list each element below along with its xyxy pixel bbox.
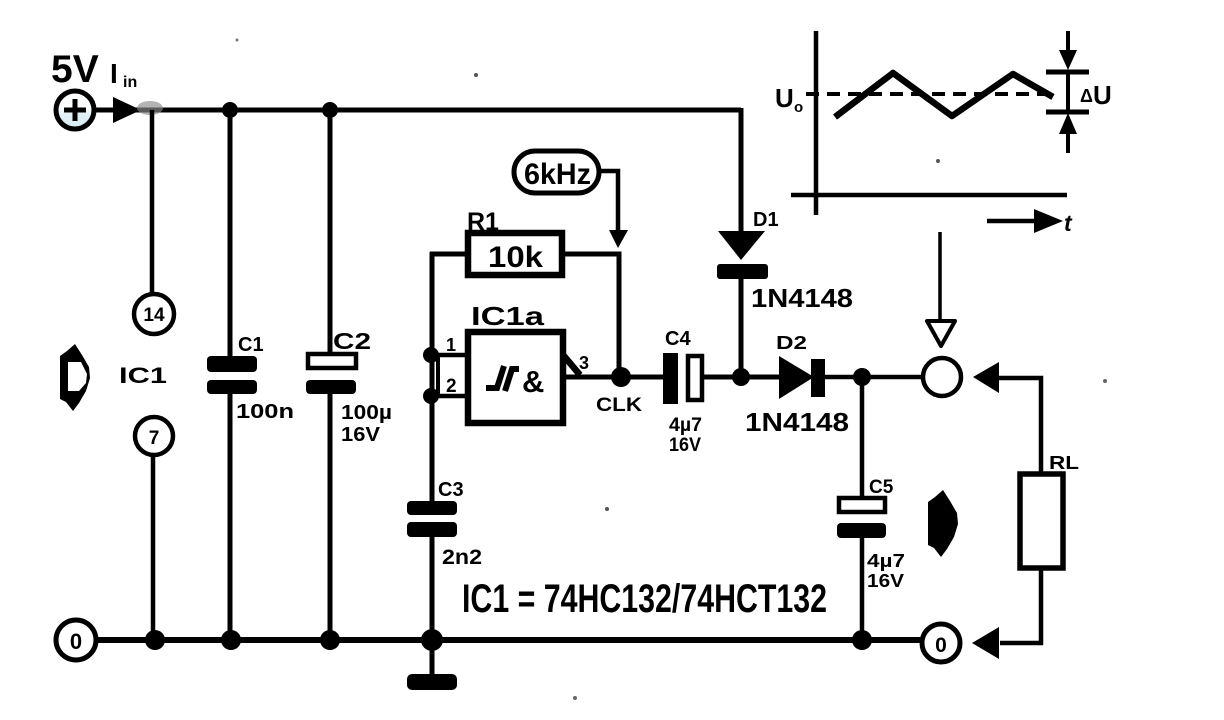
pin 2 wire: [438, 394, 468, 399]
resistor RL: [1020, 474, 1063, 568]
pin 3 diagonal: [564, 356, 580, 375]
dimension dU line top: [1066, 31, 1070, 52]
capacitor C4 (polarized): [663, 353, 702, 404]
wire RL bottom: [1000, 568, 1041, 643]
svg-text:1N4148: 1N4148: [745, 407, 849, 437]
svg-text:R1: R1: [467, 208, 499, 236]
probe wire from graph: [938, 232, 942, 320]
junction C2 top: [322, 102, 338, 118]
capacitor C1: [207, 110, 257, 640]
noise speck: [474, 73, 478, 77]
wire gate output: [563, 375, 663, 380]
diode D2: [779, 356, 825, 399]
junction C3 rail: [421, 629, 443, 651]
junction CLK node: [611, 367, 631, 387]
svg-text:&: &: [522, 364, 544, 399]
probe arrowhead open: [927, 321, 955, 346]
svg-text:in: in: [123, 74, 137, 91]
pin 14: [134, 294, 174, 334]
pin1-pin2 connector: [436, 355, 440, 396]
dimension mid line: [1066, 72, 1070, 110]
junction C5 node: [853, 368, 871, 386]
wire to pin 14: [150, 110, 155, 294]
svg-text:100n: 100n: [236, 401, 294, 423]
wire 5V rail: [94, 108, 741, 113]
svg-text:0: 0: [935, 634, 947, 657]
svg-text:7: 7: [149, 428, 160, 449]
svg-text:16V: 16V: [341, 424, 381, 446]
wire D2 to output node: [825, 375, 922, 380]
capacitor C3: [407, 501, 457, 640]
resistor R1: [468, 233, 562, 275]
ground stub: [430, 640, 435, 676]
gate IC1a: [468, 332, 563, 423]
dimension dU line bottom: [1066, 133, 1070, 153]
svg-text:2: 2: [446, 376, 457, 397]
svg-text:C4: C4: [665, 328, 691, 350]
output terminal circle: [923, 358, 961, 396]
t axis arrow line: [987, 219, 1040, 224]
capacitor C2 (polarized): [306, 110, 356, 640]
svg-text:6kHz: 6kHz: [524, 158, 591, 191]
arrowhead 6kHz down: [609, 230, 628, 248]
wire 6kHz pointer: [599, 171, 618, 231]
svg-text:I: I: [110, 58, 118, 89]
svg-text:14: 14: [143, 305, 165, 326]
junction C1 top: [222, 102, 238, 118]
voltage source V1 5V: [56, 91, 94, 129]
svg-text:3: 3: [579, 353, 589, 373]
graph y-axis: [814, 31, 819, 215]
wire C4 to D2: [704, 375, 780, 380]
junction C1 bottom: [221, 630, 241, 650]
wire RL top: [996, 378, 1041, 474]
junction D1 node: [732, 368, 750, 386]
svg-text:4µ7: 4µ7: [669, 415, 702, 436]
junction pin2: [423, 388, 439, 404]
svg-text:2n2: 2n2: [442, 546, 482, 569]
noise speck: [936, 159, 940, 163]
dimension arrow down: [1059, 50, 1077, 70]
svg-text:10k: 10k: [488, 241, 543, 274]
svg-text:100µ: 100µ: [341, 402, 392, 424]
svg-text:IC1: IC1: [119, 363, 167, 388]
label 6kHz oval: [514, 151, 599, 193]
svg-text:C1: C1: [238, 334, 264, 356]
ground symbol: [407, 674, 457, 690]
junction C2 bottom: [320, 630, 340, 650]
svg-text:D1: D1: [753, 209, 779, 231]
svg-text:0: 0: [70, 629, 82, 654]
noise speck: [1103, 379, 1107, 383]
output direction arrow: [928, 490, 958, 557]
svg-text:U: U: [775, 83, 794, 113]
svg-text:1N4148: 1N4148: [751, 283, 853, 313]
junction pin7/rail: [145, 630, 165, 650]
wire left vertical (R1 to C3): [430, 252, 435, 503]
svg-text:16V: 16V: [867, 571, 904, 591]
svg-text:o: o: [794, 99, 803, 116]
svg-text:D2: D2: [776, 333, 807, 353]
noise speck: [605, 507, 609, 511]
diode D1: [717, 108, 768, 377]
svg-text:t: t: [1064, 210, 1073, 236]
noise speck: [236, 39, 239, 42]
junction C5 bottom: [852, 630, 872, 650]
ground rail wire: [95, 637, 922, 643]
svg-text:C2: C2: [333, 328, 371, 354]
terminal 0 right: [922, 624, 960, 662]
wire R1 right: [562, 254, 619, 377]
dimension bar top: [1046, 70, 1089, 75]
t axis arrowhead: [1034, 209, 1063, 233]
arrowhead into 0 terminal: [972, 627, 999, 659]
svg-text:CLK: CLK: [596, 395, 642, 416]
svg-text:1: 1: [446, 335, 456, 355]
svg-text:C5: C5: [869, 477, 894, 498]
wire R1 left: [430, 252, 468, 257]
svg-text:U: U: [1093, 80, 1112, 110]
svg-text:IC1 = 74HC132/74HCT132: IC1 = 74HC132/74HCT132: [462, 577, 827, 621]
graph x-axis: [791, 193, 1067, 198]
dimension bar bottom: [1046, 110, 1089, 115]
junction pin1: [423, 347, 439, 363]
wire pin 7 to ground rail: [151, 455, 156, 640]
svg-text:16V: 16V: [669, 435, 701, 456]
dimension arrow up: [1059, 113, 1077, 134]
graph dashed level line: [806, 92, 1054, 96]
graph triangle waveform: [835, 73, 1053, 117]
IC1 pointer arrow: [60, 344, 90, 411]
svg-text:4µ7: 4µ7: [867, 551, 905, 571]
svg-text:C3: C3: [438, 479, 464, 501]
svg-text:Δ: Δ: [1080, 86, 1093, 106]
current direction arrow: [113, 97, 141, 123]
terminal 0 left: [56, 620, 96, 660]
noise speck: [573, 696, 577, 700]
pin 7: [135, 417, 173, 455]
pin 1 wire: [431, 353, 468, 358]
svg-text:RL: RL: [1049, 453, 1079, 473]
arrowhead into output node: [973, 362, 999, 393]
capacitor C5 (polarized): [837, 377, 886, 640]
svg-text:IC1a: IC1a: [471, 301, 545, 331]
svg-text:5V: 5V: [51, 48, 99, 91]
